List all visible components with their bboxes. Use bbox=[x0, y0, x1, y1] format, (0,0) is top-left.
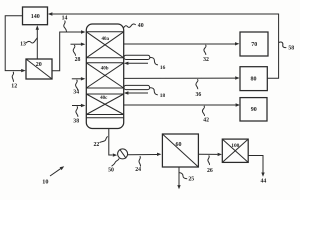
svg-text:14: 14 bbox=[62, 16, 68, 22]
label 40 with leader bbox=[123, 23, 143, 29]
svg-text:18: 18 bbox=[160, 93, 166, 99]
svg-text:80: 80 bbox=[251, 77, 257, 83]
stream 42 wire column to unit 90 bbox=[124, 103, 240, 123]
svg-text:40b: 40b bbox=[101, 67, 109, 72]
svg-text:16: 16 bbox=[160, 65, 166, 71]
svg-text:60: 60 bbox=[176, 142, 182, 148]
stream 14 wire from 20 right to column top left bbox=[52, 30, 86, 71]
stream 24 wire pump to unit 60 bbox=[128, 153, 162, 174]
pump 50 circle bbox=[118, 149, 128, 159]
stream 12 wire from 140 to unit 20 bbox=[5, 16, 26, 73]
svg-text:36: 36 bbox=[196, 92, 202, 98]
stream 28 feed arrow into column bbox=[71, 43, 86, 63]
svg-text:42: 42 bbox=[203, 118, 209, 124]
stream 16 side draw stub and return arrow bbox=[124, 55, 166, 71]
label 58 with leader bbox=[279, 42, 295, 51]
svg-text:44: 44 bbox=[261, 179, 267, 185]
unit 60 box with diagonal bbox=[162, 134, 198, 167]
svg-text:25: 25 bbox=[188, 176, 194, 182]
svg-text:12: 12 bbox=[11, 84, 17, 90]
stream 34 feed arrow into column bbox=[72, 77, 86, 96]
unit 140 box bbox=[23, 7, 48, 25]
stream 13 wire from 20 top to 140 bottom bbox=[36, 25, 39, 59]
svg-text:26: 26 bbox=[207, 168, 213, 174]
column 40 section 40b bbox=[86, 63, 123, 88]
stream 22 wire column bottom to pump bbox=[94, 129, 118, 157]
svg-text:50: 50 bbox=[108, 168, 114, 174]
svg-text:140: 140 bbox=[31, 14, 40, 20]
svg-text:40a: 40a bbox=[101, 37, 109, 42]
svg-text:100: 100 bbox=[231, 143, 239, 149]
svg-text:10: 10 bbox=[42, 178, 48, 185]
figure arrow 10 bbox=[42, 166, 64, 185]
stream 25 wire unit 60 bottom out bbox=[177, 167, 194, 189]
svg-text:22: 22 bbox=[94, 142, 100, 148]
svg-text:34: 34 bbox=[73, 90, 79, 96]
svg-text:20: 20 bbox=[36, 62, 42, 68]
svg-text:70: 70 bbox=[251, 42, 257, 48]
svg-text:24: 24 bbox=[135, 167, 141, 173]
unit 70 box bbox=[240, 32, 268, 56]
column 40 section 40a bbox=[86, 32, 123, 58]
svg-text:90: 90 bbox=[251, 107, 257, 113]
stream 58 wire from unit 80 to unit 140 bbox=[48, 12, 279, 78]
svg-text:38: 38 bbox=[73, 119, 79, 125]
label 13 with leader bbox=[20, 38, 37, 48]
svg-text:40: 40 bbox=[138, 23, 144, 29]
unit 20 box with diagonal bbox=[26, 59, 52, 79]
unit 90 box bbox=[240, 98, 267, 121]
column 40 section 40c bbox=[86, 94, 123, 115]
unit 80 box bbox=[240, 67, 267, 91]
column sump line bbox=[86, 117, 123, 119]
stream 32 wire column to unit 70 bbox=[124, 42, 240, 63]
stream 38 feed arrow into column bbox=[72, 104, 85, 125]
label 14 with leader bbox=[62, 16, 68, 32]
unit 100 box with X bbox=[222, 139, 248, 162]
svg-text:40c: 40c bbox=[100, 96, 108, 101]
svg-text:13: 13 bbox=[20, 42, 26, 48]
label 50 with leader bbox=[108, 158, 119, 173]
stream 26 wire unit 60 to unit 100 bbox=[198, 153, 222, 174]
svg-text:32: 32 bbox=[203, 57, 209, 63]
stream 18 side draw stub and return arrow bbox=[124, 85, 166, 98]
column 40 shell bbox=[86, 24, 123, 129]
stream 36 wire column to unit 80 bbox=[124, 76, 240, 98]
svg-text:28: 28 bbox=[75, 57, 81, 63]
stream 44 wire unit 100 out bbox=[248, 156, 266, 185]
label 12 with leader bbox=[11, 72, 17, 90]
svg-text:58: 58 bbox=[288, 45, 294, 51]
